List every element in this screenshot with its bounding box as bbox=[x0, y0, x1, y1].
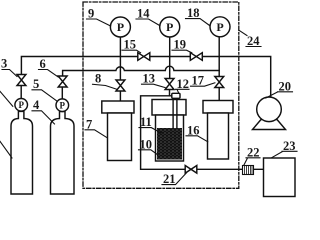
svg-text:10: 10 bbox=[140, 137, 153, 151]
svg-text:6: 6 bbox=[40, 57, 46, 71]
label 15 leader bbox=[122, 50, 141, 53]
pump 20 circle bbox=[257, 97, 282, 122]
dash-dot enclosure border 24 bbox=[83, 2, 239, 188]
valve 15 bbox=[138, 53, 150, 61]
fill surface bumps bbox=[159, 127, 178, 129]
label 12 leader bbox=[176, 89, 190, 93]
autoclave head bbox=[152, 100, 186, 116]
label 14 leader bbox=[136, 19, 160, 26]
wire: line B header from valve 6 with hops over risers bbox=[63, 66, 220, 76]
svg-text:19: 19 bbox=[174, 38, 187, 52]
svg-text:21: 21 bbox=[163, 172, 176, 186]
svg-text:3: 3 bbox=[1, 57, 7, 71]
wire: stub valve 6 to right cylinder gauge bbox=[61, 87, 63, 100]
valve 17 bbox=[215, 77, 224, 88]
vessel 16 cap bbox=[203, 101, 233, 114]
wire: valve 13 outlet stub bbox=[169, 89, 171, 96]
valve 6 bbox=[58, 76, 67, 87]
wire: line A header from valve 3 to pump 20 bbox=[21, 57, 270, 99]
label 17 leader bbox=[191, 83, 215, 86]
svg-text:16: 16 bbox=[187, 123, 200, 137]
svg-text:11: 11 bbox=[140, 115, 152, 129]
label 4 leader bbox=[32, 111, 55, 124]
label 24 leader bbox=[239, 31, 261, 47]
svg-text:9: 9 bbox=[88, 6, 94, 20]
label 22 leader bbox=[244, 158, 260, 166]
label 3 leader bbox=[2, 70, 17, 77]
label 19 leader bbox=[172, 50, 192, 53]
label 11 leader bbox=[139, 128, 161, 133]
label 7 leader bbox=[85, 130, 107, 138]
label 10 leader bbox=[139, 150, 158, 155]
svg-text:14: 14 bbox=[137, 6, 150, 20]
collection box 23 bbox=[264, 158, 296, 197]
label 16 leader bbox=[186, 136, 208, 142]
label 18 leader bbox=[186, 19, 211, 26]
label 8 leader bbox=[93, 84, 118, 89]
wire: riser gauge 14 to valve 13 bbox=[169, 37, 171, 79]
svg-text:P: P bbox=[216, 20, 223, 34]
sample fill 10/11 bbox=[157, 128, 182, 160]
valve 13 bbox=[165, 79, 174, 90]
label 23 leader bbox=[272, 151, 298, 158]
svg-text:P: P bbox=[18, 100, 24, 110]
svg-text:15: 15 bbox=[124, 38, 137, 52]
svg-text:5: 5 bbox=[33, 77, 39, 91]
label 9 leader bbox=[87, 19, 111, 26]
svg-text:13: 13 bbox=[143, 72, 156, 86]
svg-text:17: 17 bbox=[192, 74, 205, 88]
wire: riser gauge 9 to valve 8 bbox=[119, 37, 121, 81]
stirrer shaft 12 bbox=[173, 98, 177, 132]
autoclave body bbox=[156, 115, 184, 161]
valve 8 bbox=[116, 80, 125, 91]
gauge on cylinder 1 bbox=[15, 99, 28, 112]
svg-text:23: 23 bbox=[283, 139, 296, 153]
wire: stub valve 3 to left cylinder gauge bbox=[20, 85, 22, 99]
label 13 leader bbox=[142, 84, 166, 87]
svg-text:22: 22 bbox=[247, 145, 260, 159]
svg-text:P: P bbox=[166, 20, 173, 34]
leader from cropped label to cylinder-1 gauge bbox=[0, 89, 13, 106]
wire: riser gauge 18 to valve 17 bbox=[218, 37, 220, 78]
svg-text:7: 7 bbox=[86, 117, 92, 131]
wire: valve 8 outlet into vessel 7 cap bbox=[119, 91, 121, 102]
leader from cropped label to cylinder-1 body bbox=[0, 139, 12, 159]
svg-text:24: 24 bbox=[247, 34, 260, 48]
svg-text:12: 12 bbox=[177, 77, 190, 91]
wire: valve 17 outlet into vessel 16 cap bbox=[218, 87, 220, 101]
gauge on cylinder 2 bbox=[56, 99, 69, 112]
wire: drain line from valve 21 to box 23 bbox=[197, 168, 264, 170]
gauge 18 bbox=[210, 17, 230, 37]
filter/coil 22 bbox=[243, 166, 254, 175]
svg-text:18: 18 bbox=[187, 6, 200, 20]
svg-text:8: 8 bbox=[95, 72, 101, 86]
svg-text:20: 20 bbox=[279, 79, 292, 93]
label 6 leader bbox=[39, 70, 59, 78]
vessel 7 body bbox=[108, 113, 132, 161]
stirrer coupling 12 bbox=[172, 93, 180, 98]
label 21 leader bbox=[162, 173, 187, 185]
gas cylinder 1 (left) bbox=[11, 111, 33, 194]
vessel 16 body bbox=[208, 113, 229, 159]
label 20 leader bbox=[266, 92, 293, 98]
svg-text:P: P bbox=[117, 20, 124, 34]
gas cylinder 2 (right) bbox=[51, 112, 75, 195]
svg-text:P: P bbox=[60, 101, 66, 111]
pump 20 base bbox=[253, 120, 286, 130]
valve 3 bbox=[17, 75, 26, 86]
gauge 14 bbox=[160, 17, 180, 37]
valve 19 bbox=[190, 53, 202, 61]
vessel 7 cap bbox=[102, 101, 134, 113]
wire: pipe from autoclave head area to drain bbox=[141, 96, 186, 170]
valve 21 bbox=[185, 166, 197, 174]
label 5 leader bbox=[32, 90, 57, 101]
svg-text:4: 4 bbox=[33, 98, 40, 112]
gauge 9 bbox=[110, 17, 130, 37]
